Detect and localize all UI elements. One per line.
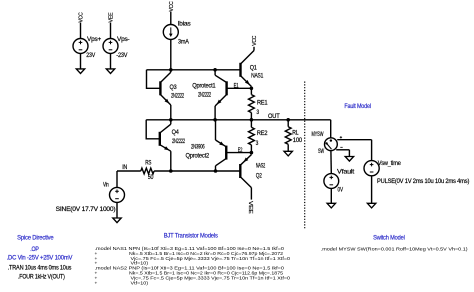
svg-text:MYSW: MYSW	[312, 131, 324, 138]
svg-text:Qprotect2: Qprotect2	[186, 152, 210, 159]
svg-text:SW: SW	[318, 148, 324, 155]
svg-text:Vps+: Vps+	[87, 36, 102, 43]
svg-text:Q2: Q2	[256, 172, 263, 179]
svg-text:RE1: RE1	[257, 99, 268, 106]
svg-text:Spice Directive: Spice Directive	[17, 234, 54, 241]
svg-text:Ibias: Ibias	[178, 20, 191, 27]
svg-text:.FOUR 1kHz V(OUT): .FOUR 1kHz V(OUT)	[18, 274, 65, 281]
svg-text:RS: RS	[145, 160, 151, 167]
svg-text:VEE: VEE	[109, 12, 115, 23]
svg-text:VCC: VCC	[252, 36, 258, 46]
svg-text:2N2222: 2N2222	[171, 93, 184, 100]
svg-text:23V: 23V	[86, 52, 96, 59]
svg-text:.TRAN 10us 4ms 0ms 10us: .TRAN 10us 4ms 0ms 10us	[8, 264, 72, 271]
svg-text:+: +	[95, 281, 98, 286]
svg-text:2N2222: 2N2222	[172, 138, 185, 145]
svg-text:RE2: RE2	[257, 130, 268, 137]
svg-text:.model MYSW SW(Ron=0.001 Roff=: .model MYSW SW(Ron=0.001 Roff=10Meg Vt=0…	[321, 247, 468, 253]
svg-text:Vps-: Vps-	[117, 36, 130, 43]
svg-text:BJT Transistor Models: BJT Transistor Models	[164, 233, 219, 240]
svg-text:2N3906: 2N3906	[191, 144, 205, 151]
svg-text:Q3: Q3	[170, 84, 178, 91]
svg-text:Vfault: Vfault	[337, 169, 355, 176]
svg-text:.DC Vin -25V +25V 100mV: .DC Vin -25V +25V 100mV	[7, 254, 74, 261]
svg-text:E1: E1	[234, 83, 239, 90]
svg-text:Vtf=10): Vtf=10)	[131, 280, 149, 286]
svg-text:100: 100	[293, 137, 303, 144]
svg-text:50: 50	[148, 174, 154, 181]
svg-text:Qprotect1: Qprotect1	[192, 83, 216, 90]
svg-text:NAS2: NAS2	[256, 162, 266, 169]
svg-text:Vsw_time: Vsw_time	[378, 160, 402, 167]
svg-text:Q1: Q1	[250, 64, 258, 71]
svg-text:2N2222: 2N2222	[198, 92, 211, 99]
svg-text:RL: RL	[292, 130, 299, 137]
svg-text:PULSE(0V 1V 2ms 10u 10u 2ms 4m: PULSE(0V 1V 2ms 10u 10u 2ms 4ms)	[377, 178, 469, 185]
svg-text:Switch Model: Switch Model	[373, 235, 405, 242]
svg-text:Vin: Vin	[103, 182, 109, 189]
svg-text:3mA: 3mA	[178, 39, 190, 46]
svg-text:-23V: -23V	[116, 52, 128, 59]
svg-text:VCC: VCC	[79, 12, 85, 22]
svg-text:0V: 0V	[338, 186, 344, 193]
svg-text:VCC: VCC	[169, 1, 175, 11]
svg-text:IN: IN	[122, 164, 127, 171]
svg-text:.OP: .OP	[30, 246, 39, 253]
svg-text:E2: E2	[238, 147, 243, 154]
svg-text:OUT: OUT	[268, 113, 280, 120]
svg-text:Vjc=.75 Fc=.5 Cje=5p Mje=.3333: Vjc=.75 Fc=.5 Cje=5p Mje=.3333 Vje=.75 T…	[131, 275, 291, 281]
svg-text:Q4: Q4	[172, 129, 180, 136]
svg-text:SINE(0V 17.7V 1000): SINE(0V 17.7V 1000)	[56, 206, 116, 213]
svg-text:NAS1: NAS1	[251, 72, 264, 79]
svg-text:Fault Model: Fault Model	[344, 103, 371, 110]
svg-text:Vjc=.75 Fc=.5 Cje=5p Mje=.3333: Vjc=.75 Fc=.5 Cje=5p Mje=.3333 Vje=.75 T…	[131, 256, 291, 262]
svg-text:VEE: VEE	[247, 201, 253, 214]
